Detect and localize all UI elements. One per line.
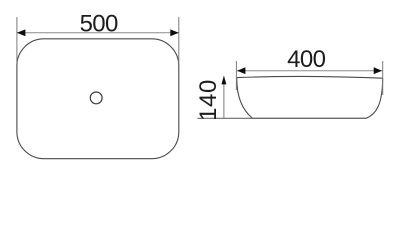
extension line right of 400 dimension [382, 61, 384, 95]
drain hole circle [90, 92, 102, 104]
dimension line 500 [17, 32, 179, 34]
arrowhead top of 140 dimension [221, 76, 226, 85]
basin side view profile [237, 76, 383, 118]
svg-text:400: 400 [287, 46, 325, 73]
extension line left of 400 dimension [235, 61, 237, 90]
base and extension line under side view [198, 117, 367, 119]
arrowhead left of 500 dimension [17, 29, 26, 36]
arrowhead right of 400 dimension [374, 67, 382, 74]
arrowhead left of 400 dimension [237, 67, 245, 74]
extension line right of 500 dimension [178, 17, 180, 63]
extension line left of 500 dimension [16, 17, 18, 63]
svg-text:140: 140 [195, 79, 222, 121]
dimension line 400 [236, 70, 382, 72]
basin top view outline [17, 39, 179, 159]
svg-text:500: 500 [80, 10, 118, 37]
arrowhead right of 500 dimension [170, 29, 179, 36]
dimension line 140 vertical [223, 76, 225, 118]
